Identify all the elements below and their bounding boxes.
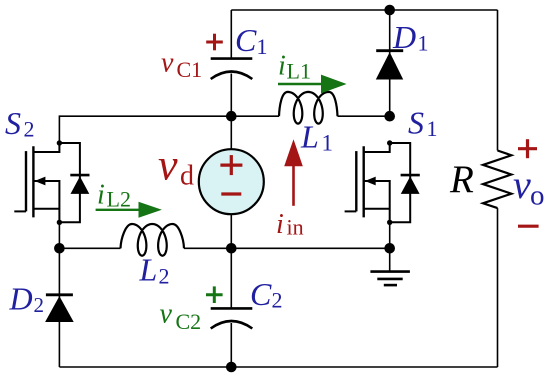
node junction S2 source / L2 — [54, 243, 65, 254]
svg-text:C2: C2 — [176, 309, 202, 334]
svg-text:i: i — [97, 180, 105, 211]
inductor L1 — [279, 92, 338, 124]
node junction C2 / bottom rail — [226, 362, 237, 373]
current arrow iin — [284, 139, 303, 206]
node junction S1 source / ground — [384, 243, 395, 254]
wire C1 bottom lead to node — [230, 74, 232, 117]
svg-text:v: v — [513, 162, 531, 207]
ground — [370, 248, 410, 285]
node source junction S1 — [387, 220, 392, 225]
wire L1 to D1/S1 node — [338, 115, 390, 117]
voltage source vd — [199, 116, 264, 248]
wire bottom rail — [59, 366, 497, 368]
wire top rail — [231, 9, 497, 11]
resistor R — [483, 151, 511, 209]
svg-text:v: v — [160, 299, 173, 330]
svg-text:2: 2 — [34, 293, 45, 317]
svg-text:in: in — [287, 214, 304, 239]
node drain junction S1 — [387, 140, 392, 145]
diode D2 — [45, 248, 74, 367]
svg-text:1: 1 — [427, 116, 438, 141]
wire S1 source to lower rail — [389, 222, 391, 248]
svg-text:1: 1 — [418, 31, 429, 56]
svg-text:v: v — [161, 47, 174, 78]
svg-text:R: R — [449, 158, 474, 201]
wire mid lower rail — [59, 247, 120, 249]
inductor L2 — [121, 224, 185, 256]
label + of C2 — [206, 286, 223, 303]
svg-text:L: L — [139, 252, 158, 288]
node junction vd / C2 — [226, 243, 237, 254]
svg-text:S: S — [408, 105, 424, 141]
body diode of S1 — [390, 143, 420, 222]
label + of C1 — [206, 34, 223, 51]
transistor S1 — [345, 143, 390, 222]
label + of vo — [518, 139, 537, 158]
svg-text:S: S — [5, 105, 21, 141]
label - of vo — [518, 225, 539, 228]
svg-text:1: 1 — [322, 131, 334, 156]
svg-text:C1: C1 — [177, 57, 203, 82]
current arrow iL2 — [96, 202, 162, 218]
svg-text:d: d — [180, 160, 194, 191]
svg-text:L: L — [300, 119, 319, 155]
svg-text:1: 1 — [257, 34, 268, 59]
svg-text:o: o — [530, 179, 545, 211]
node junction D1 / L1 / S1 — [384, 111, 395, 122]
svg-text:C: C — [235, 22, 257, 58]
svg-text:C: C — [250, 276, 272, 312]
wire L2 to vd node — [184, 247, 231, 249]
capacitor C1 — [211, 59, 253, 79]
wire S2 source to lower rail — [58, 222, 60, 248]
svg-text:2: 2 — [159, 264, 170, 289]
node drain junction S2 — [57, 140, 62, 145]
capacitor C2 — [211, 248, 253, 367]
wire right side down to resistor — [497, 10, 499, 151]
node junction top rail / D1 — [384, 5, 395, 16]
node junction C1 / rails — [226, 111, 237, 122]
transistor S2 — [14, 143, 59, 222]
svg-text:D: D — [9, 281, 33, 317]
svg-text:v: v — [158, 141, 178, 190]
diode D1 — [376, 10, 403, 116]
wire node to L1 — [231, 115, 279, 117]
wire vd node to S1 source node — [231, 247, 389, 249]
svg-text:L2: L2 — [107, 187, 131, 212]
node source junction S2 — [57, 220, 62, 225]
wire resistor bottom to bottom rail — [497, 208, 499, 367]
svg-text:i: i — [278, 51, 286, 82]
svg-text:2: 2 — [24, 117, 35, 142]
wire mid upper rail left (S2 drain to node) — [59, 116, 231, 143]
wire C1 top lead from top rail — [230, 10, 232, 59]
svg-text:2: 2 — [272, 288, 283, 313]
current arrow iL1 — [278, 75, 347, 94]
svg-text:i: i — [276, 209, 284, 240]
body diode of S2 — [59, 143, 89, 222]
svg-text:D: D — [392, 19, 416, 55]
svg-text:L1: L1 — [287, 59, 311, 84]
